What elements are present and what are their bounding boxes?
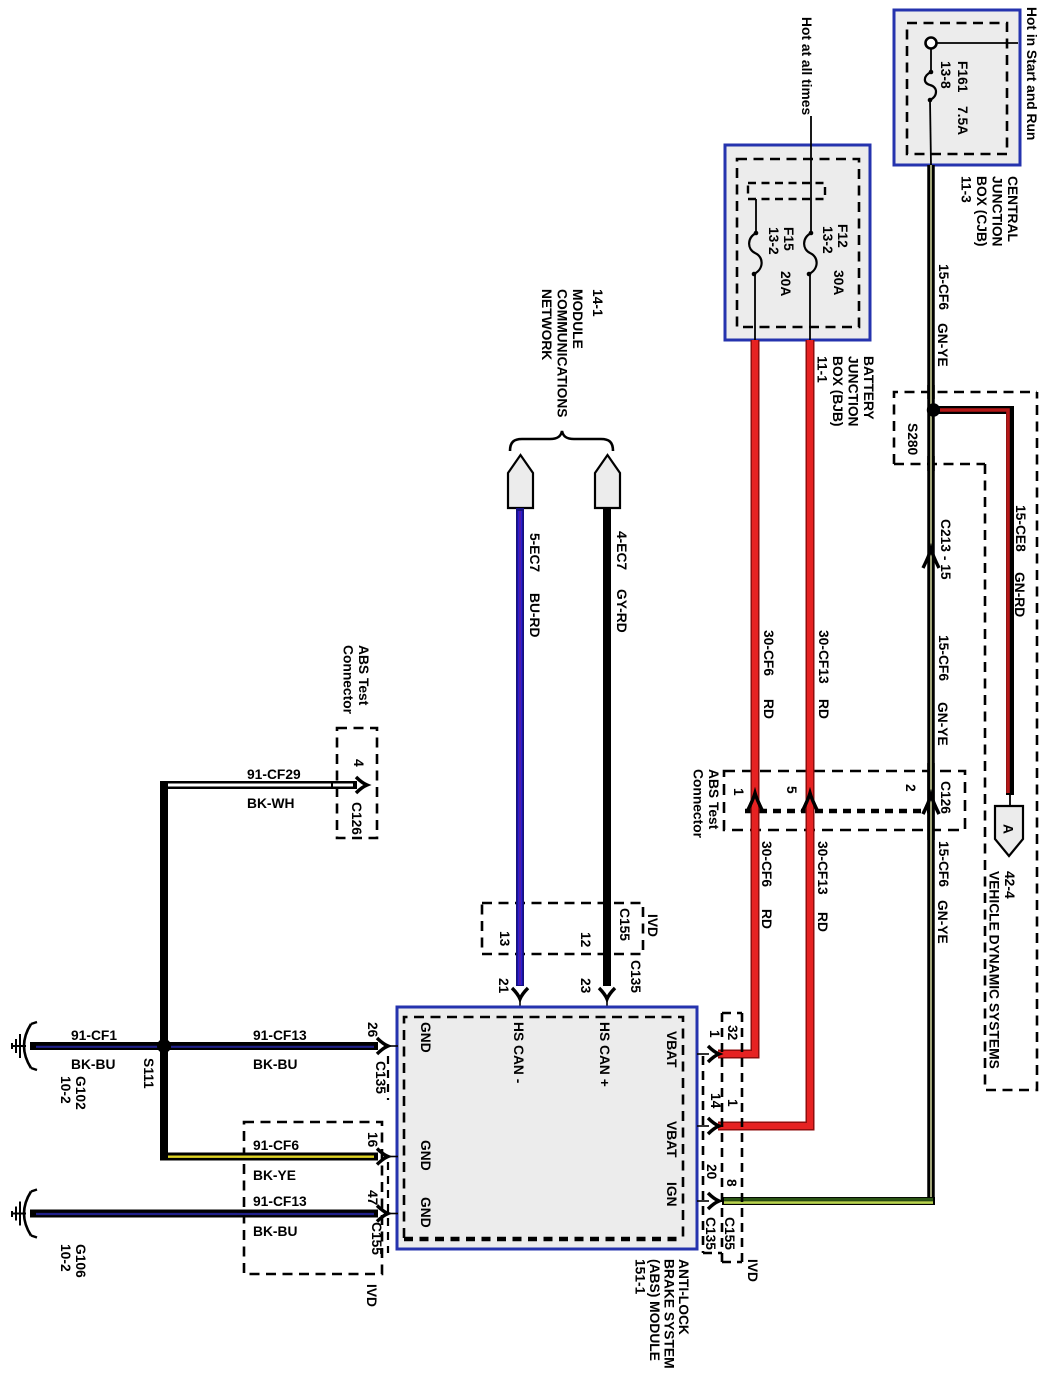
- svg-text:GND: GND: [418, 1140, 433, 1171]
- wire 91-CF13 BK-BU from G106 to pin 47: [30, 1210, 378, 1219]
- ground G102: [12, 1022, 37, 1070]
- fuse F15 20A: [749, 199, 796, 340]
- pin 21 arrow into module: [512, 988, 528, 1010]
- svg-text:IVD: IVD: [364, 1284, 379, 1307]
- wire 30-CF13 RD from fuse F12: [718, 340, 810, 1126]
- pin 1 arrow on 30-CF6: [747, 793, 763, 812]
- svg-text:GN-YE: GN-YE: [935, 323, 950, 367]
- network connector right (to GY-RD): [595, 455, 620, 508]
- wire 91-CF6 over IVD box edge: [237, 1153, 252, 1161]
- pin 5 arrow on 30-CF13: [802, 793, 818, 812]
- svg-text:IVD: IVD: [745, 1259, 760, 1282]
- svg-text:RD: RD: [761, 699, 776, 719]
- svg-text:91-CF6: 91-CF6: [253, 1138, 299, 1153]
- svg-text:4-EC7: 4-EC7: [614, 531, 629, 570]
- ABS test connector box (right, pins 1 5 2 C126): [724, 771, 965, 830]
- wire 91-CF29 BK-WH: [160, 781, 357, 789]
- battery junction box BJB: [725, 145, 870, 340]
- svg-text:IVD: IVD: [645, 914, 660, 937]
- svg-text:ABS TestConnector: ABS TestConnector: [691, 769, 722, 839]
- feed line Hot in Start and Run: [937, 42, 1018, 44]
- svg-text:15-CF6: 15-CF6: [936, 635, 951, 681]
- IGN pin lead and arrow: [697, 1193, 719, 1209]
- wire 15-CF6 over C126 connector: [927, 763, 935, 840]
- svg-text:BK-BU: BK-BU: [71, 1057, 115, 1072]
- wire 15-CF6 over S280 box edges: [927, 385, 935, 399]
- wire 91-CF29 over left test connector edge: [331, 781, 345, 789]
- svg-text:Hot in Start and Run: Hot in Start and Run: [1024, 7, 1039, 140]
- svg-text:C126: C126: [938, 781, 953, 814]
- wire overlays at dashed-line crossings: [237, 385, 939, 1214]
- pin 23 arrow into module: [599, 988, 615, 1010]
- wire IGN GN-YE horizontal: [722, 1199, 935, 1202]
- VBAT pin lead and arrow (2): [697, 1118, 719, 1134]
- svg-text:13: 13: [497, 931, 512, 947]
- svg-text:GN-YE: GN-YE: [935, 900, 950, 944]
- svg-text:47: 47: [365, 1190, 380, 1206]
- svg-text:ABS TestConnector: ABS TestConnector: [341, 645, 372, 715]
- svg-text:91-CF29: 91-CF29: [247, 767, 301, 782]
- svg-text:1: 1: [731, 788, 746, 796]
- pin 4 arrow: [356, 777, 367, 793]
- svg-text:RD: RD: [759, 909, 774, 929]
- wire 30-CF6 over test connector: [751, 763, 760, 840]
- svg-text:30-CF6: 30-CF6: [759, 841, 774, 887]
- svg-text:BK-YE: BK-YE: [253, 1168, 296, 1183]
- svg-text:1: 1: [707, 1030, 722, 1038]
- svg-text:30-CF13: 30-CF13: [815, 841, 830, 895]
- wire 91-CF6 BK-YE: [160, 1153, 378, 1161]
- svg-text:BU-RD: BU-RD: [527, 593, 542, 637]
- svg-text:23: 23: [578, 978, 593, 994]
- svg-text:13-8: 13-8: [938, 61, 953, 89]
- svg-text:20A: 20A: [778, 271, 793, 296]
- brace over network connectors: [510, 431, 613, 451]
- svg-text:16: 16: [365, 1132, 380, 1148]
- svg-text:VBAT: VBAT: [664, 1031, 679, 1068]
- svg-text:30-CF13: 30-CF13: [816, 630, 831, 684]
- svg-text:C135: C135: [628, 960, 643, 993]
- fuse F161 7.5A: [925, 38, 970, 166]
- svg-text:C135: C135: [703, 1217, 718, 1250]
- redraw pin 1 arrow: [747, 793, 763, 812]
- svg-text:5: 5: [784, 786, 799, 794]
- pin 16 arrow and lead: [377, 1149, 398, 1165]
- splice S280: [927, 403, 940, 416]
- svg-text:7.5A: 7.5A: [955, 106, 970, 135]
- svg-text:S280: S280: [905, 423, 920, 456]
- svg-text:C155: C155: [617, 908, 632, 941]
- pin 26 arrow and lead: [377, 1038, 398, 1054]
- svg-text:13-2: 13-2: [766, 227, 781, 255]
- connector arrow C213-15 on GN-YE wire: [923, 549, 939, 568]
- svg-text:RD: RD: [816, 699, 831, 719]
- central junction box CJB: [894, 10, 1020, 165]
- redraw pin 2 arrow: [923, 795, 939, 814]
- svg-text:C135: C135: [373, 1061, 388, 1094]
- svg-text:91-CF1: 91-CF1: [71, 1028, 117, 1043]
- svg-text:15-CE8: 15-CE8: [1013, 505, 1028, 552]
- svg-text:F15: F15: [781, 227, 796, 251]
- svg-text:1: 1: [725, 1099, 740, 1107]
- connector A to vehicle dynamic systems: [995, 795, 1023, 856]
- svg-text:C155: C155: [722, 1217, 737, 1250]
- svg-text:4: 4: [351, 759, 366, 767]
- IVD dashed box (left): [244, 1122, 382, 1274]
- connector column C135 (module right): [703, 1013, 742, 1262]
- wire 91-CF13 BK-BU from S111 to pin 26: [164, 1042, 378, 1051]
- wire 4-EC7 over IVD C155 box: [603, 896, 611, 961]
- svg-text:GN-YE: GN-YE: [935, 702, 950, 746]
- connector IVD C155 box (top middle): [482, 903, 643, 954]
- S280 dashed box: [894, 392, 1037, 464]
- svg-text:C213 - 15: C213 - 15: [938, 519, 953, 580]
- wire 15-CE8 GN-RD: [938, 410, 1010, 795]
- ABS test connector box (left, pin 4 C126): [337, 728, 377, 838]
- wire riser from S111 up to 91-CF29 and down to 91-CF6: [160, 781, 168, 1161]
- pin 2 arrow on 15-CF6: [923, 795, 939, 814]
- VBAT pin lead and arrow (1): [697, 1046, 719, 1062]
- svg-text:26: 26: [365, 1022, 380, 1038]
- svg-text:91-CF13: 91-CF13: [253, 1194, 307, 1209]
- wire 91-CF13 over IVD box edge: [237, 1210, 252, 1218]
- svg-text:VBAT: VBAT: [664, 1121, 679, 1158]
- svg-text:IGN: IGN: [664, 1182, 679, 1207]
- feed line Hot at all times: [810, 116, 812, 199]
- svg-text:GN-RD: GN-RD: [1012, 572, 1027, 617]
- svg-text:20: 20: [704, 1164, 719, 1180]
- svg-text:91-CF13: 91-CF13: [253, 1028, 307, 1043]
- wire 5-EC7 BU-RD: [516, 508, 524, 986]
- fuse F12 30A: [804, 199, 850, 340]
- redraw pin 5 arrow: [802, 793, 818, 812]
- svg-text:F161: F161: [955, 61, 970, 93]
- svg-text:30-CF6: 30-CF6: [761, 630, 776, 676]
- svg-text:5-EC7: 5-EC7: [527, 533, 542, 572]
- pin 47 arrow and lead: [377, 1206, 398, 1222]
- svg-text:F12: F12: [835, 224, 850, 248]
- svg-text:GY-RD: GY-RD: [614, 589, 629, 633]
- wire 5-EC7 over IVD C155 box: [516, 896, 524, 961]
- connector column line (module left): [387, 1056, 389, 1100]
- svg-text:GND: GND: [418, 1022, 433, 1053]
- svg-text:30A: 30A: [831, 270, 846, 295]
- ABS module box: [397, 1007, 697, 1249]
- wire 91-CF1 BK-BU from G102 to S111: [30, 1042, 169, 1051]
- svg-text:32: 32: [725, 1025, 740, 1041]
- svg-text:BK-WH: BK-WH: [247, 796, 295, 811]
- svg-text:C126: C126: [349, 802, 364, 835]
- wire 30-CF13 over test connector: [806, 763, 815, 840]
- svg-text:15-CF6: 15-CF6: [936, 841, 951, 887]
- svg-text:13-2: 13-2: [820, 226, 835, 254]
- svg-text:12: 12: [578, 932, 593, 948]
- svg-text:21: 21: [496, 978, 511, 994]
- svg-text:BK-BU: BK-BU: [253, 1224, 297, 1239]
- svg-text:HS CAN -: HS CAN -: [511, 1022, 526, 1084]
- svg-text:GND: GND: [418, 1197, 433, 1228]
- network connector left (to BU-RD): [508, 455, 533, 508]
- svg-text:A: A: [1001, 824, 1016, 834]
- svg-text:RD: RD: [815, 912, 830, 932]
- wire 30-CF6 RD from fuse F15: [718, 340, 755, 1054]
- splice S111: [157, 1039, 171, 1053]
- svg-text:Hot at all times: Hot at all times: [799, 17, 814, 115]
- svg-text:15-CF6: 15-CF6: [936, 264, 951, 310]
- ground G106: [12, 1190, 37, 1238]
- svg-text:8: 8: [724, 1179, 739, 1187]
- vehicle dynamic systems dashed box: [985, 392, 1037, 1090]
- svg-text:BK-BU: BK-BU: [253, 1057, 297, 1072]
- svg-text:HS CAN +: HS CAN +: [597, 1022, 612, 1087]
- svg-text:2: 2: [903, 784, 918, 792]
- internal heavy dashed line: [745, 809, 930, 813]
- wire 4-EC7 GY-RD: [603, 508, 611, 986]
- svg-text:S111: S111: [141, 1058, 156, 1089]
- wire 15-CF6 GN-YE vertical from CJB to IGN corner: [927, 165, 935, 1201]
